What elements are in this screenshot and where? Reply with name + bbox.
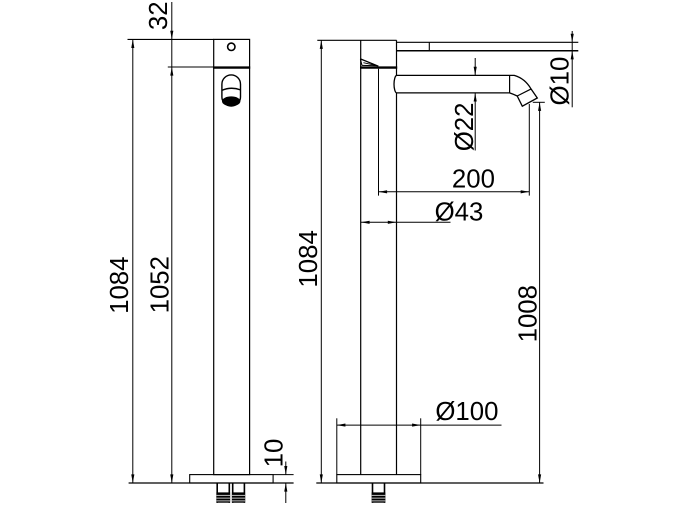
arrowhead D10 top (down) <box>571 34 574 43</box>
arrowhead 1084-left top (up) <box>131 39 134 48</box>
arrowhead D100 left <box>337 424 346 427</box>
arrowhead D10 bottom (up) <box>571 51 574 60</box>
dimension D22: lower segment <box>474 93 476 151</box>
arrowhead D22 bottom (up) <box>474 93 477 102</box>
dimension 1008: spout tip extension line <box>533 101 545 103</box>
left view handle knob end ellipse (filled) <box>222 96 240 106</box>
right view column left edge <box>360 40 362 474</box>
arrowhead 1084-right bottom (down) <box>320 474 323 483</box>
dimension D100: right extension line <box>420 418 422 474</box>
right view cartridge divider (thick line) <box>360 66 397 68</box>
svg-text:Ø22: Ø22 <box>451 103 479 152</box>
right view column right edge upper <box>396 40 398 75</box>
arrowhead D100 right <box>412 424 421 427</box>
left view cartridge divider (thick line) <box>213 66 250 68</box>
dimension 1084 right: dimension line <box>320 40 322 483</box>
arrowhead 1052 top (up onto divider) <box>170 67 173 76</box>
svg-text:10: 10 <box>260 439 288 468</box>
dimension 200: dimension line <box>379 191 530 193</box>
arrowhead 1084-left bottom (down) <box>131 474 134 483</box>
arrowhead 1084-right top (up) <box>320 40 323 49</box>
dimension D10: lower segment <box>571 51 573 108</box>
arrowhead 10 bottom (up onto baseline) <box>284 483 287 492</box>
svg-text:1084: 1084 <box>106 257 134 314</box>
left view handle knob waist arc <box>222 88 241 90</box>
right view base plate <box>337 475 421 483</box>
right view spout tip joint line <box>517 89 531 96</box>
dimension 1008: dimension line <box>539 102 541 483</box>
svg-text:Ø43: Ø43 <box>435 198 484 226</box>
arrowhead 1052 bottom (down) <box>170 474 173 483</box>
dimension D10: upper segment <box>571 31 573 42</box>
svg-text:32: 32 <box>145 1 173 30</box>
arrowhead 10 top (down onto plate top) <box>284 466 287 475</box>
right view lever arm top edge + extension <box>397 41 579 43</box>
dimension 200: column centre extension line <box>378 69 380 196</box>
left view column body <box>214 39 250 474</box>
svg-text:Ø100: Ø100 <box>435 398 498 426</box>
arrowhead 200 left <box>379 190 388 193</box>
right view lever arm bottom edge + extension <box>397 50 579 52</box>
dimension 32/1052: shared dimension line <box>171 2 173 483</box>
right view lever joint tick <box>428 42 430 51</box>
arrowhead D43 left <box>361 221 370 224</box>
dimension 200: spout tip extension line <box>528 104 530 196</box>
left view floor baseline <box>129 482 294 484</box>
right view handle wedge lower diagonal <box>363 63 376 66</box>
svg-text:200: 200 <box>452 166 495 194</box>
arrowhead 1008 bottom (down) <box>538 474 541 483</box>
left view threaded stud 1 <box>216 483 230 503</box>
right view handle wedge upper diagonal <box>360 59 378 66</box>
left view handle knob outline <box>222 75 241 106</box>
arrowhead 32 (down onto top edge) <box>170 31 173 40</box>
dimension D100: dimension line with leader <box>337 424 502 426</box>
arrowhead 1008 top (up) <box>538 102 541 111</box>
dimension 1084 left: dimension line <box>132 39 134 483</box>
svg-text:1084: 1084 <box>295 230 323 287</box>
left view base plate top extension line <box>273 474 294 476</box>
right view handle wedge bottom edge <box>362 64 377 66</box>
left view base plate <box>190 475 273 483</box>
right view threaded stud <box>372 483 386 503</box>
right view spout outline <box>394 75 537 106</box>
arrowhead 200 right <box>521 190 530 193</box>
dimension D100: left extension line <box>336 418 338 474</box>
left view 1052 extension line <box>168 66 214 68</box>
svg-text:1008: 1008 <box>515 285 543 342</box>
right view top edge line <box>317 39 396 41</box>
right view spout joint line (vertical) <box>509 75 511 93</box>
dimension D10: middle segment <box>571 42 573 51</box>
arrowhead D43 right <box>388 221 397 224</box>
left view threaded stud 2 <box>232 483 245 503</box>
svg-text:Ø10: Ø10 <box>547 57 575 106</box>
dimension D43: dimension line with leader <box>361 221 451 223</box>
svg-text:1052: 1052 <box>146 256 174 313</box>
right view handle wedge left edge <box>360 59 362 66</box>
right view floor baseline <box>316 482 543 484</box>
dimension 10 left: upper segment <box>285 462 287 475</box>
arrowhead D22 top (down) <box>474 67 477 76</box>
dimension 10 left: lower segment <box>285 483 287 503</box>
left view aerator circle <box>228 43 235 50</box>
dimension D22: upper segment <box>474 58 476 75</box>
right view column right edge lower <box>396 93 398 475</box>
left view top edge extension line <box>128 38 214 40</box>
